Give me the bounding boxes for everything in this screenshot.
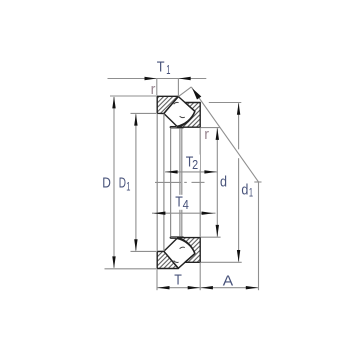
spherical roller (bottom) xyxy=(164,239,195,269)
dimension T1 extension lines xyxy=(157,79,179,97)
cage lip (bottom) xyxy=(170,237,183,238)
left extension line below housing washer xyxy=(156,269,158,290)
dimension d1 extension lines xyxy=(201,103,242,263)
label T4 xyxy=(174,194,191,212)
label D1 xyxy=(119,175,131,193)
roller surface marks (bottom) xyxy=(174,247,185,262)
dimension T4 line xyxy=(152,212,216,215)
dimension d line xyxy=(216,128,219,237)
dimension A line xyxy=(200,286,258,289)
dimension D line xyxy=(112,96,115,268)
roller surface marks (top) xyxy=(174,102,185,117)
cage silhouette pair xyxy=(180,128,182,236)
apex tick on axis xyxy=(254,181,261,183)
svg-text:d: d xyxy=(241,182,248,198)
svg-text:d: d xyxy=(220,175,227,191)
dimension T line xyxy=(157,286,200,289)
svg-text:r: r xyxy=(151,81,156,98)
spherical roller (top) xyxy=(164,97,195,127)
housing washer section (bottom) xyxy=(157,251,178,268)
shaft washer section (top) xyxy=(177,103,200,128)
shaft washer bore silhouette xyxy=(199,128,201,238)
svg-text:1: 1 xyxy=(166,63,170,77)
dimension D1 extension lines xyxy=(131,113,157,251)
cage silhouette line left xyxy=(170,128,172,236)
svg-text:T: T xyxy=(157,59,165,75)
svg-text:D: D xyxy=(119,175,126,191)
apex extension line xyxy=(258,182,260,290)
bearing axis centre line xyxy=(155,181,205,183)
shaft washer section (bottom) xyxy=(177,238,200,263)
right extension line below shaft washer xyxy=(199,262,201,290)
svg-text:2: 2 xyxy=(192,157,198,172)
svg-text:A: A xyxy=(223,274,234,290)
svg-text:r: r xyxy=(204,126,209,143)
dimension d extension lines xyxy=(201,128,221,238)
label T1 xyxy=(157,59,171,77)
load line leader xyxy=(179,87,259,182)
dimension T2 line xyxy=(165,170,217,173)
svg-text:T: T xyxy=(174,273,182,289)
dimension D extension lines xyxy=(105,96,157,269)
svg-text:1: 1 xyxy=(126,179,130,193)
housing washer section (top) xyxy=(157,96,178,113)
dimension D1 line xyxy=(134,114,137,252)
dimension d1 line xyxy=(237,103,240,262)
bore silhouette line (housing washer back) xyxy=(156,114,158,252)
dimension T1 line xyxy=(108,77,207,80)
bore silhouette line (housing washer raceway edge) xyxy=(163,114,165,251)
label T2 xyxy=(185,154,201,172)
svg-text:D: D xyxy=(102,175,111,191)
svg-text:4: 4 xyxy=(183,198,189,212)
svg-text:1: 1 xyxy=(249,186,253,200)
cage lip (top) xyxy=(170,127,183,128)
label d1 xyxy=(241,182,253,199)
